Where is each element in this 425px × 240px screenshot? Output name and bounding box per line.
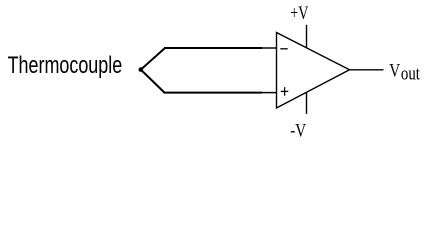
label: Vout — [389, 61, 420, 85]
svg-text:+V: +V — [290, 3, 308, 24]
label: -V — [290, 120, 306, 141]
svg-text:out: out — [401, 64, 421, 85]
wire: inverting input pin — [261, 47, 277, 49]
op-amp U1 triangle — [277, 33, 350, 109]
wire: +V supply lead — [306, 25, 308, 48]
svg-text:-V: -V — [290, 120, 306, 141]
svg-text:V: V — [389, 61, 400, 82]
wire: lower thermocouple lead (diagonal) — [141, 70, 165, 93]
wire: non-inverting input pin — [261, 92, 277, 94]
op-amp non-inverting input plus sign — [281, 87, 289, 96]
wire: lower thermocouple lead (horizontal) — [164, 92, 263, 94]
svg-text:Thermocouple: Thermocouple — [8, 52, 123, 79]
node: thermocouple junction dot — [139, 67, 144, 72]
label: Thermocouple — [8, 52, 123, 79]
wire: upper thermocouple lead (horizontal) — [164, 47, 262, 49]
wire: upper thermocouple lead (diagonal) — [141, 48, 165, 70]
wire: output — [350, 69, 384, 71]
wire: -V supply lead — [306, 92, 308, 114]
op-amp inverting input minus sign — [280, 48, 287, 50]
label: +V — [290, 3, 308, 24]
